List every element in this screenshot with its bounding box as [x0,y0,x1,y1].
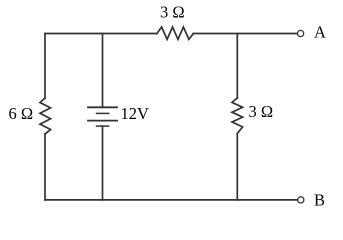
terminal B (open circle) [298,197,304,203]
battery V1 plate short upper [97,112,109,114]
battery V1 plate long lower [88,120,117,122]
wire right branch lower [236,134,238,200]
wire left branch (x=45) [44,34,46,99]
svg-text:A: A [314,23,326,42]
battery V1 plate short bottom [97,125,109,127]
wire right branch upper [236,34,238,99]
svg-text:3 Ω: 3 Ω [249,102,274,121]
resistor R3 (3 ohm, right) [232,98,243,134]
wire bottom [45,199,298,201]
resistor R1 (3 ohm, top) [157,27,193,39]
wire top-right segment (R1 to terminal A) [193,33,297,35]
resistor R2 (6 ohm, left) [40,98,51,134]
battery V1 plate long top [88,106,117,108]
wire battery branch lower [102,126,104,200]
svg-text:12V: 12V [121,104,150,123]
svg-text:3 Ω: 3 Ω [160,3,185,22]
terminal A (open circle) [298,30,304,36]
wire top-left segment (corner to R1) [45,33,157,35]
svg-text:B: B [314,191,325,210]
wire battery branch upper [102,34,104,108]
svg-text:6 Ω: 6 Ω [9,104,34,123]
wire left branch lower [44,134,46,200]
